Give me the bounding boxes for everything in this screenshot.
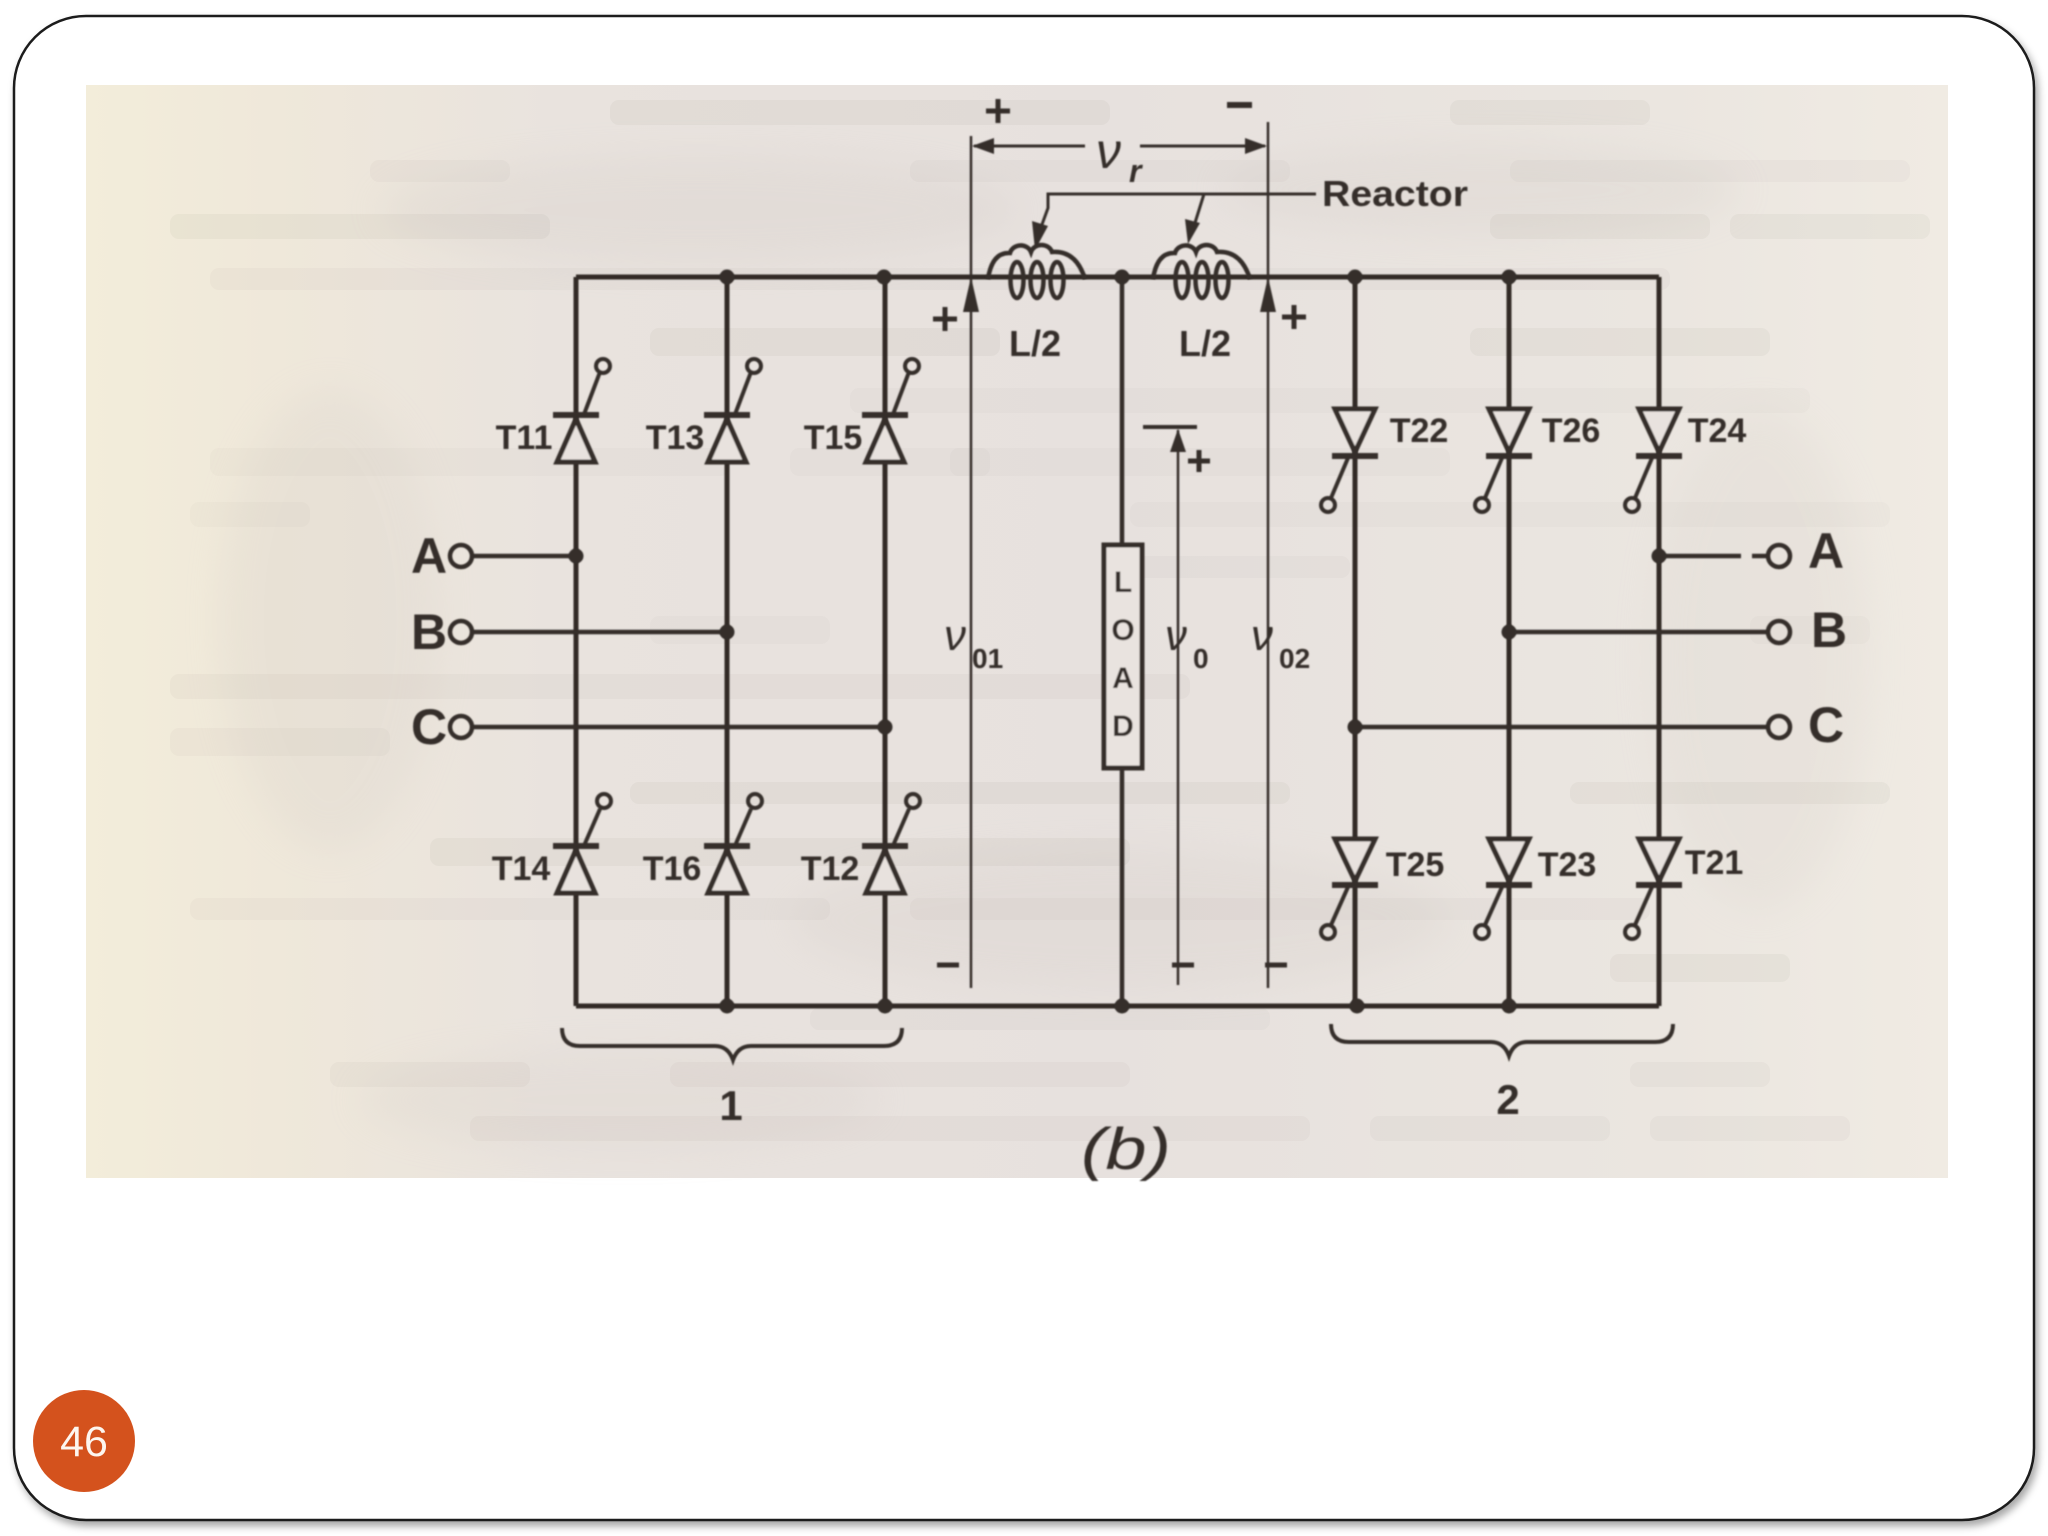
svg-text:0: 0 [1193, 643, 1209, 674]
svg-text:2: 2 [1496, 1076, 1519, 1123]
load [1104, 277, 1142, 1006]
thyristors drawn over legs [492, 359, 1747, 939]
node: bottom rail / T12 leg [878, 999, 893, 1014]
wire: left bridge leg A (T11/T14 column) [574, 277, 579, 1006]
svg-text:46: 46 [60, 1418, 108, 1466]
svg-text:(b): (b) [1081, 1117, 1171, 1182]
brace group 2 [1331, 1024, 1673, 1123]
inductor L/2 right half of reactor [1153, 245, 1250, 364]
node: phase B right [1502, 625, 1517, 640]
node: bottom rail / load branch [1115, 999, 1130, 1014]
svg-text:T11: T11 [496, 419, 553, 457]
v02 measuring line [1251, 122, 1310, 988]
v0 measuring line [1143, 427, 1210, 985]
svg-text:T14: T14 [492, 850, 551, 888]
thyristor T14 [492, 794, 611, 893]
thyristor T23 [1475, 839, 1596, 939]
slide page number badge [33, 1390, 135, 1492]
terminal B right [1509, 602, 1847, 658]
thyristor T21 [1625, 839, 1743, 939]
wire: right bridge leg (T24/T21 column) [1657, 277, 1662, 1006]
svg-text:T15: T15 [804, 419, 863, 457]
terminal C right [1355, 697, 1844, 753]
wire: right bridge leg (T26/T23 column) [1507, 277, 1512, 1006]
svg-text:L/2: L/2 [1179, 323, 1231, 364]
svg-text:C: C [411, 699, 447, 755]
thyristor T13 [646, 359, 761, 462]
thyristor T26 [1475, 409, 1600, 512]
inductor L/2 left half of reactor [988, 245, 1085, 364]
wire: top dc rail [576, 275, 1659, 280]
thyristor T11 [496, 359, 610, 462]
node: top rail / T22 leg [1348, 270, 1363, 285]
node: bottom rail / T16 leg [720, 999, 735, 1014]
thyristor T16 [643, 794, 762, 893]
terminal C left [411, 699, 881, 755]
wire: right bridge leg (T22/T25 column) [1353, 277, 1358, 1006]
node: phase C left [878, 720, 893, 735]
svg-text:T23: T23 [1538, 846, 1597, 884]
svg-text:L: L [1114, 566, 1132, 599]
wire: left bridge leg B (T13/T16 column) [725, 277, 730, 1006]
node: top rail / T26 leg [1502, 270, 1517, 285]
node: bottom rail / T23 leg [1502, 999, 1517, 1014]
terminal B left [411, 604, 723, 660]
svg-text:D: D [1112, 710, 1134, 743]
svg-text:A: A [1808, 523, 1844, 579]
node: phase A right [1652, 549, 1667, 564]
terminal A right [1659, 523, 1844, 579]
terminal A left [411, 528, 572, 584]
brace group 1 [562, 1028, 902, 1129]
svg-text:T22: T22 [1390, 412, 1449, 450]
node: top rail / T15 leg [877, 270, 892, 285]
svg-text:C: C [1808, 697, 1844, 753]
node: bottom rail / T25 leg [1350, 999, 1365, 1014]
svg-text:1: 1 [719, 1082, 742, 1129]
svg-text:01: 01 [972, 643, 1003, 674]
wire: left bridge leg C (T15/T12 column) [883, 277, 888, 1006]
vr dimension at top [972, 99, 1267, 189]
svg-text:Reactor: Reactor [1322, 173, 1468, 214]
node: phase A left [569, 549, 584, 564]
node: phase C right [1348, 720, 1363, 735]
thyristor T15 [804, 359, 919, 462]
thyristor T22 [1321, 409, 1448, 512]
svg-text:A: A [411, 528, 447, 584]
svg-text:T25: T25 [1386, 846, 1445, 884]
svg-text:02: 02 [1279, 643, 1310, 674]
v01 measuring line [933, 136, 1003, 988]
svg-text:L/2: L/2 [1009, 323, 1061, 364]
node: top rail / T13 leg [720, 270, 735, 285]
reactor label and pointer [1032, 173, 1468, 250]
svg-text:B: B [411, 604, 447, 660]
thyristor T24 [1625, 409, 1746, 512]
ghost bleed-through text texture [170, 100, 1930, 1141]
svg-text:B: B [1811, 602, 1847, 658]
svg-text:ν: ν [1096, 123, 1121, 179]
svg-text:ν: ν [944, 611, 966, 660]
node: top rail / load branch [1115, 270, 1130, 285]
svg-text:T12: T12 [801, 850, 860, 888]
thyristor T12 [801, 794, 920, 893]
svg-text:T26: T26 [1542, 412, 1601, 450]
svg-text:ν: ν [1165, 611, 1187, 660]
svg-text:A: A [1112, 662, 1134, 695]
scanned figure paper background [86, 85, 1948, 1178]
svg-text:ν: ν [1251, 611, 1273, 660]
thyristor T25 [1321, 839, 1444, 939]
node: phase B left [720, 625, 735, 640]
svg-text:T24: T24 [1688, 412, 1747, 450]
svg-text:O: O [1111, 614, 1134, 647]
wire: bottom dc rail [576, 1004, 1659, 1009]
svg-text:T21: T21 [1685, 844, 1744, 882]
svg-text:T16: T16 [643, 850, 702, 888]
svg-text:r: r [1129, 153, 1143, 189]
svg-text:T13: T13 [646, 419, 705, 457]
